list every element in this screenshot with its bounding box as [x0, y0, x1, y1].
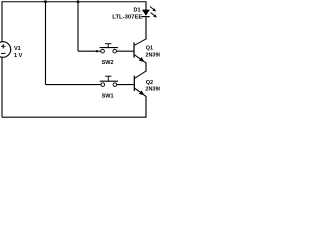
wire SW2 right to Q1 base [117, 50, 134, 52]
node junction dot on SW2 wire [96, 50, 98, 52]
svg-text:SW2: SW2 [102, 60, 114, 66]
svg-text:1 V: 1 V [14, 53, 23, 59]
wire SW1 right to Q2 base [117, 84, 134, 86]
switch SW1 [100, 76, 118, 86]
LED D1 anode wire [145, 2, 147, 10]
wire SW2 left horizontal [78, 50, 101, 52]
transistor Q1 [133, 17, 146, 72]
LED D1 cathode bar [142, 16, 150, 18]
switch SW2 [100, 44, 118, 53]
node junction dot on top rail at SW2 drop [77, 0, 80, 3]
battery V1 circle [0, 42, 11, 58]
wire left rail upper [1, 2, 3, 43]
wire vertical drop to SW2 [77, 2, 79, 52]
LED D1 light arrow 2 [151, 13, 157, 18]
svg-text:V1: V1 [14, 46, 21, 52]
node junction dot on top rail at SW1 drop [44, 0, 47, 3]
svg-text:SW1: SW1 [102, 94, 114, 100]
wire bottom rail [2, 116, 147, 118]
transistor Q2 [134, 71, 146, 117]
wire vertical drop to SW1 [45, 2, 47, 85]
LED D1 triangle [142, 10, 150, 16]
svg-text:2N3904: 2N3904 [145, 52, 160, 58]
svg-text:LTL-307EE: LTL-307EE [112, 15, 142, 21]
svg-text:Q1: Q1 [146, 45, 153, 51]
wire SW1 left horizontal [46, 84, 102, 86]
battery plus sign [1, 44, 6, 48]
battery minus sign [1, 52, 6, 54]
svg-text:2N3904: 2N3904 [145, 87, 160, 93]
svg-text:Q2: Q2 [146, 80, 153, 86]
LED D1 light arrow 1 [150, 7, 156, 12]
wire top rail [1, 1, 146, 3]
wire left rail lower [1, 57, 3, 117]
svg-text:D1: D1 [134, 8, 141, 14]
